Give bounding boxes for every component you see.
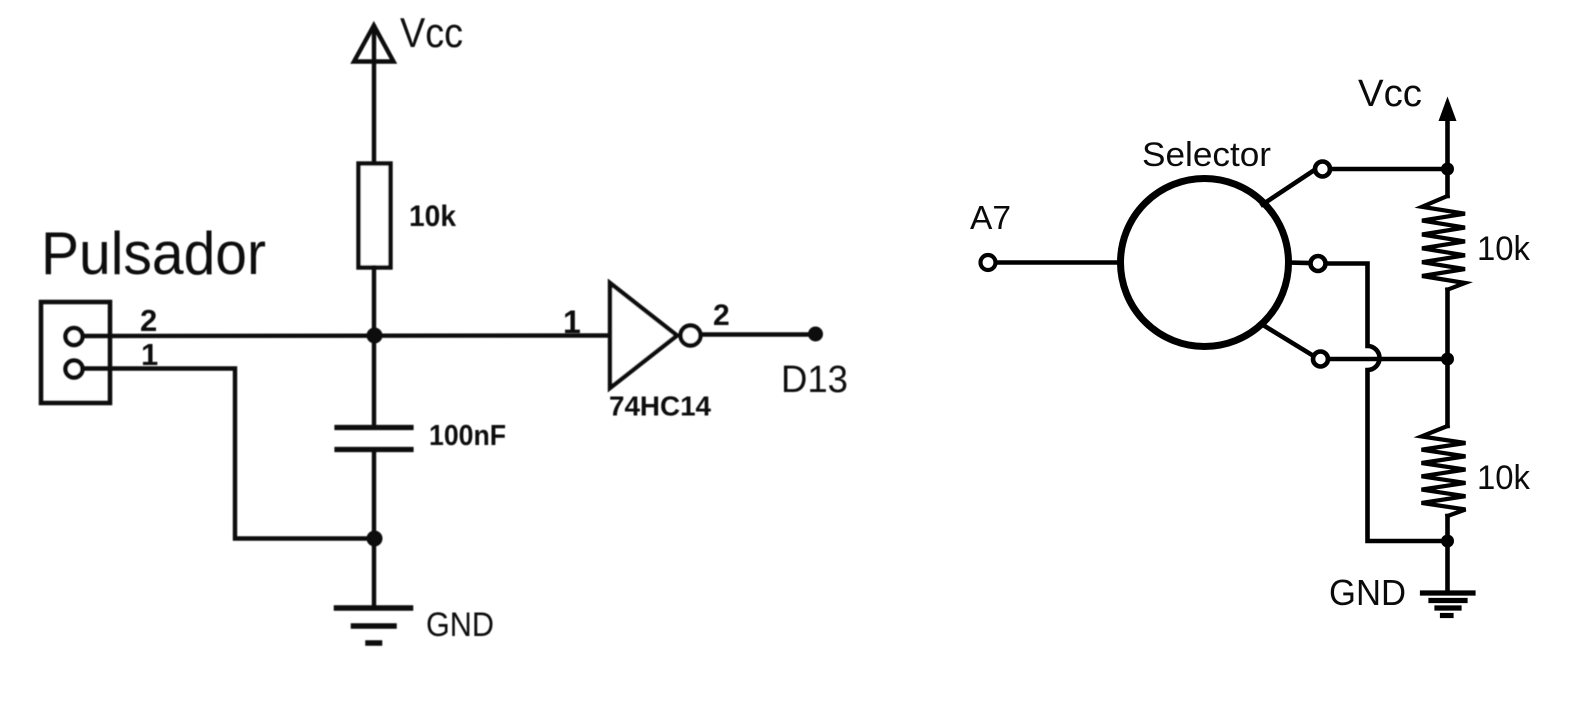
wire: selector to middle contact [1289, 260, 1310, 265]
wire: A7 to selector [996, 260, 1120, 265]
wire: resistor to node [372, 268, 376, 336]
wire: main horizontal net (pin2 to inverter input) [83, 333, 611, 338]
bottom contact circle [1313, 352, 1328, 367]
wire: bottom node to ground [1445, 541, 1450, 591]
svg-text:Pulsador: Pulsador [41, 220, 266, 287]
resistor R 10k (left) [359, 164, 391, 268]
ground symbol (left) [337, 608, 411, 643]
node: bottom divider junction dot [1441, 535, 1454, 548]
svg-text:74HC14: 74HC14 [609, 391, 712, 422]
svg-text:2: 2 [140, 303, 157, 338]
power Vcc (left) [354, 26, 394, 164]
node: bottom net junction dot [367, 531, 383, 547]
node: middle divider junction dot [1441, 353, 1454, 366]
node D13 terminal dot [808, 327, 823, 342]
wire: Vcc stem [372, 27, 376, 163]
svg-text:10k: 10k [1477, 459, 1531, 497]
wire: middle node to lower resistor [1445, 359, 1450, 426]
wire: node down to capacitor [372, 336, 376, 426]
svg-text:GND: GND [1329, 572, 1406, 613]
op-amp U1 74HC14 inverter triangle [610, 283, 677, 388]
wire: selector to bottom contact [1263, 325, 1312, 355]
middle contact circle [1311, 256, 1326, 271]
connector pin 2 circle [66, 328, 83, 345]
wire: bottom node to ground [372, 539, 376, 607]
node: main net junction dot [367, 328, 383, 344]
svg-text:10k: 10k [409, 200, 456, 233]
svg-text:Vcc: Vcc [1358, 73, 1422, 115]
svg-text:D13: D13 [781, 359, 848, 401]
power Vcc (right) arrow head [1439, 97, 1457, 122]
wire: capacitor to bottom node [372, 452, 376, 539]
inverter output bubble [681, 326, 701, 346]
svg-text:100nF: 100nF [429, 420, 506, 452]
svg-text:Selector: Selector [1142, 136, 1271, 174]
wire: pin1 to bottom node [83, 369, 375, 539]
wire: top contact to Vcc rail [1330, 167, 1448, 172]
svg-text:2: 2 [713, 299, 730, 332]
wire: upper resistor to middle node [1445, 290, 1450, 359]
ground symbol (right) [1423, 593, 1474, 616]
svg-text:1: 1 [563, 304, 581, 340]
wire: bottom contact to middle node [1328, 357, 1448, 362]
svg-text:Vcc: Vcc [400, 9, 463, 56]
resistor R 10k upper zigzag [1422, 196, 1465, 290]
connector pin 1 circle [66, 361, 83, 378]
terminal A7 circle [981, 255, 996, 270]
connector J1 Pulsador body [41, 302, 110, 403]
top contact circle [1315, 162, 1330, 177]
svg-text:10k: 10k [1477, 230, 1531, 268]
svg-text:GND: GND [426, 606, 494, 644]
wire: middle contact down with hop over, to bottom node [1326, 264, 1448, 542]
capacitor C 100nF [337, 428, 411, 450]
wire: Vcc node to resistor [1445, 169, 1450, 196]
Vcc arrow triangle [354, 26, 394, 62]
selector SW1 body circle [1121, 179, 1289, 347]
svg-text:1: 1 [141, 337, 158, 372]
svg-text:A7: A7 [970, 199, 1011, 236]
node: Vcc rail junction dot [1441, 163, 1454, 176]
resistor R 10k lower zigzag [1422, 426, 1466, 516]
wire: lower resistor to bottom node [1445, 516, 1450, 541]
wire: inverter output to D13 [702, 332, 815, 336]
wire: selector to top contact [1263, 171, 1314, 205]
power Vcc (right) stem [1445, 112, 1450, 169]
